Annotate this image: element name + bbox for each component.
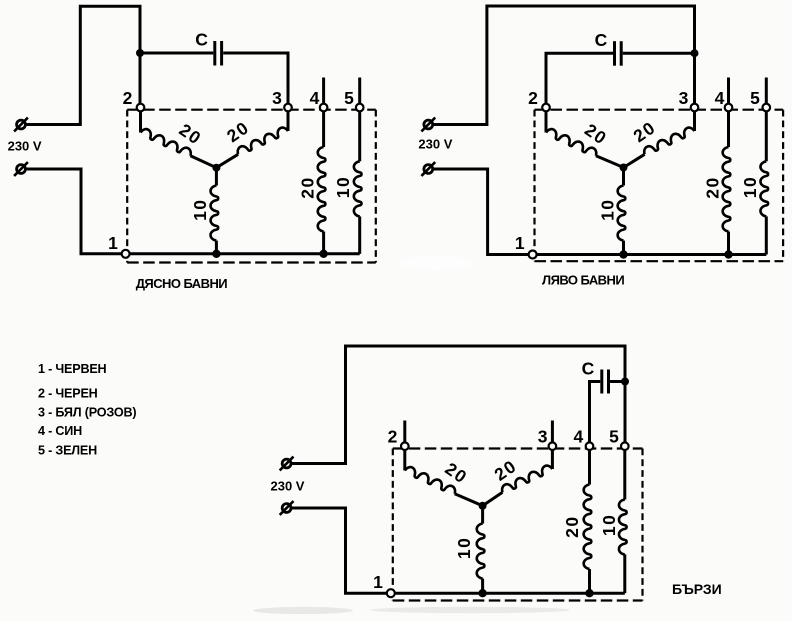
svg-text:230 V: 230 V: [8, 138, 42, 153]
svg-text:C: C: [582, 358, 595, 378]
svg-text:4: 4: [310, 88, 320, 108]
svg-text:3 - БЯЛ (РОЗОВ): 3 - БЯЛ (РОЗОВ): [38, 405, 136, 419]
svg-text:2: 2: [388, 427, 398, 447]
svg-text:ЛЯВО БАВНИ: ЛЯВО БАВНИ: [542, 273, 624, 288]
svg-text:10: 10: [740, 176, 760, 198]
svg-text:5: 5: [750, 88, 760, 108]
svg-text:230 V: 230 V: [418, 137, 452, 152]
svg-text:2: 2: [528, 88, 538, 108]
svg-text:3: 3: [272, 88, 282, 108]
svg-text:1: 1: [373, 572, 383, 592]
svg-text:10: 10: [599, 514, 619, 536]
svg-text:ДЯСНО БАВНИ: ДЯСНО БАВНИ: [136, 276, 228, 291]
svg-text:1 - ЧЕРВЕН: 1 - ЧЕРВЕН: [38, 362, 107, 376]
svg-text:4 - СИН: 4 - СИН: [38, 424, 82, 438]
svg-text:C: C: [195, 29, 208, 49]
svg-text:20: 20: [703, 176, 723, 198]
svg-text:1: 1: [515, 233, 525, 253]
svg-text:5 - ЗЕЛЕН: 5 - ЗЕЛЕН: [38, 443, 97, 457]
svg-text:2: 2: [123, 88, 133, 108]
svg-text:10: 10: [597, 198, 617, 220]
svg-text:1: 1: [108, 233, 118, 253]
svg-text:230 V: 230 V: [271, 478, 305, 493]
svg-text:20: 20: [562, 515, 582, 537]
svg-text:3: 3: [538, 427, 548, 447]
svg-text:2 - ЧЕРЕН: 2 - ЧЕРЕН: [38, 386, 98, 400]
svg-text:C: C: [595, 30, 608, 50]
svg-text:5: 5: [609, 427, 619, 447]
svg-text:20: 20: [298, 176, 318, 198]
svg-text:10: 10: [333, 176, 353, 198]
svg-text:5: 5: [344, 88, 354, 108]
svg-text:3: 3: [679, 88, 689, 108]
svg-text:4: 4: [715, 88, 725, 108]
svg-text:10: 10: [454, 537, 474, 559]
svg-text:БЪРЗИ: БЪРЗИ: [672, 581, 722, 597]
svg-text:4: 4: [574, 427, 584, 447]
svg-text:10: 10: [190, 198, 210, 220]
